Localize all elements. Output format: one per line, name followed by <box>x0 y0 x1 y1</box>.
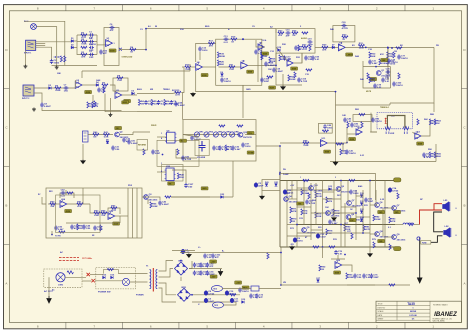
capacitor C8 <box>40 103 43 108</box>
resistor R55 <box>434 152 436 158</box>
potentiometer VR4 <box>221 132 226 137</box>
wire bias drop <box>280 252 282 285</box>
vactrol dashed box <box>377 113 412 129</box>
capacitor C18 <box>272 68 275 73</box>
svg-text:NONE: NONE <box>410 311 417 313</box>
capacitor C110 <box>297 78 300 83</box>
IC label tag 4558 <box>247 70 254 73</box>
resistor R87 <box>308 193 310 199</box>
capacitor C52 <box>328 220 331 225</box>
wire PA bottom rail <box>280 246 400 248</box>
diode D13 <box>329 188 332 191</box>
svg-text:4.7/25: 4.7/25 <box>301 80 308 83</box>
IC label tag 2SC <box>115 126 122 129</box>
resistor R53 <box>434 119 436 125</box>
diode D20 <box>265 184 268 187</box>
IC label tag REG <box>242 286 249 289</box>
wire stage B drop <box>81 71 83 78</box>
capacitor C76 <box>334 250 337 255</box>
resistor R75 <box>315 192 317 198</box>
U12 loop box <box>353 115 372 122</box>
potentiometer VR1 <box>194 132 199 137</box>
wire up <box>346 127 348 143</box>
wire PA w1 <box>291 181 293 200</box>
wire PA v10 <box>303 181 305 225</box>
resistor R85 <box>389 244 391 250</box>
volume cap sub-box <box>195 139 209 155</box>
capacitor C62 <box>206 263 209 268</box>
svg-text:6.8K: 6.8K <box>104 137 109 139</box>
wire J3 to R5 <box>34 87 75 89</box>
wire PA rail 2 <box>287 189 341 191</box>
svg-text:2SC1815: 2SC1815 <box>243 137 253 139</box>
capacitor C70 <box>238 288 241 293</box>
wire k drop <box>335 92 337 162</box>
svg-text:SHEET: SHEET <box>378 319 385 321</box>
op-amp U14 <box>60 201 67 208</box>
wire PA base link 1 <box>323 198 342 200</box>
wire link8 <box>311 229 323 231</box>
svg-text:4.7K: 4.7K <box>424 156 429 159</box>
capacitor C77 <box>397 55 400 60</box>
diode D12 <box>360 211 363 214</box>
capacitor C36 <box>231 146 234 151</box>
node G left <box>387 47 389 49</box>
resistor R92 <box>319 265 321 271</box>
svg-text:100/10: 100/10 <box>224 81 231 83</box>
svg-text:47P: 47P <box>110 29 114 32</box>
svg-text:0.047: 0.047 <box>332 222 338 225</box>
node rect2 <box>191 294 193 296</box>
resistor R36 <box>396 47 402 49</box>
IC label tag 4558 <box>65 209 72 212</box>
wire PA link 3 <box>356 216 370 218</box>
IC label tag 2SC <box>370 77 377 80</box>
capacitor C6 <box>110 26 115 29</box>
svg-text:B: B <box>5 204 7 208</box>
node I <box>237 134 239 136</box>
node vref <box>344 254 346 256</box>
wire into switch box <box>90 274 103 276</box>
wire PA rail 4 <box>297 232 370 234</box>
capacitor C74 <box>362 274 365 279</box>
red wire to speaker 1 <box>420 204 443 225</box>
svg-text:HOSHINO GAKKI: HOSHINO GAKKI <box>433 304 448 307</box>
resistor R25 <box>279 55 281 61</box>
wire F right <box>390 67 392 88</box>
capacitor C96 <box>54 226 57 231</box>
svg-text:2SC1815: 2SC1815 <box>314 190 324 192</box>
wire bridge top <box>189 261 192 269</box>
resistor R88 <box>329 246 335 248</box>
wire node L stub <box>51 231 53 235</box>
node box top <box>242 38 244 40</box>
wire tank return <box>176 149 197 158</box>
capacitor C43 <box>70 225 73 230</box>
resistor R66 <box>150 202 152 208</box>
speckle pass 5 <box>140 26 435 241</box>
wire PA drop2 <box>322 247 324 258</box>
capacitor C40 <box>343 118 346 123</box>
capacitor C73 <box>353 274 356 279</box>
resistor R79 <box>333 209 335 215</box>
wire stub F <box>362 61 364 67</box>
connector J4 <box>83 131 89 142</box>
svg-text:10/16: 10/16 <box>327 128 333 130</box>
svg-text:100K: 100K <box>81 44 87 46</box>
wire to U4 <box>181 67 184 93</box>
wire jack J1 to ground bus <box>24 21 65 65</box>
ground <box>55 66 59 70</box>
wire tremolo bottom bus <box>330 161 436 163</box>
IC label tag +35V <box>210 260 217 263</box>
input jack J1 (phone jack) <box>31 24 37 30</box>
wire EQ bottom bus <box>137 111 172 113</box>
resistor R8 <box>117 77 123 79</box>
resistor R122 <box>359 114 365 116</box>
test point pill TP1 <box>394 178 402 182</box>
large electrolytic C33 <box>199 141 206 152</box>
chassis ground arrow <box>47 296 51 303</box>
resistor R4 <box>130 49 136 51</box>
wire AC ground drop <box>48 277 50 296</box>
svg-text:33K: 33K <box>317 216 321 218</box>
output connector node <box>417 237 420 240</box>
resistor R110 <box>81 46 87 48</box>
svg-text:47P: 47P <box>259 296 263 299</box>
capacitor C31 <box>111 146 114 151</box>
resistor R81 <box>363 225 365 231</box>
resistor R89 <box>303 179 309 181</box>
svg-text:1K: 1K <box>231 41 234 43</box>
diode D3 <box>49 87 52 90</box>
resistor R20 <box>217 60 219 66</box>
diode D8 <box>106 141 109 144</box>
svg-text:4.7/25: 4.7/25 <box>309 202 316 205</box>
svg-text:1: 1 <box>300 177 301 179</box>
wire stub box2 <box>242 85 244 91</box>
svg-text:2: 2 <box>335 177 336 179</box>
wire branch 1 <box>77 34 97 36</box>
svg-text:VOLUME: VOLUME <box>197 157 206 159</box>
svg-text:1M: 1M <box>141 103 144 105</box>
svg-text:220P: 220P <box>155 153 161 155</box>
wire to U5 <box>219 66 241 68</box>
svg-text:100K: 100K <box>152 206 158 208</box>
node PA top <box>340 180 342 182</box>
wire PA v11 <box>347 181 349 204</box>
resistor R61 <box>77 203 83 205</box>
svg-text:0.047: 0.047 <box>235 148 241 151</box>
wire J2 contact b <box>36 44 46 46</box>
IC label tag 4558 <box>201 73 208 76</box>
electrolytic capacitor C8 <box>204 291 208 296</box>
L block inner box <box>56 195 100 233</box>
node junction <box>355 212 357 214</box>
op-amp U11 <box>321 140 328 147</box>
svg-text:10K: 10K <box>180 177 184 179</box>
wire U2 out <box>82 84 96 86</box>
IC label tag 2SD <box>378 210 385 213</box>
svg-text:NJM: NJM <box>123 102 128 104</box>
capacitor C100 <box>392 82 395 87</box>
svg-text:0.0047: 0.0047 <box>162 203 169 206</box>
resistor R31 <box>358 44 364 46</box>
svg-text:4.7K: 4.7K <box>111 209 116 212</box>
resistor R84 <box>373 242 375 248</box>
resistor R6 <box>164 99 166 105</box>
wire J1 tip <box>36 27 56 66</box>
capacitor C91 <box>89 46 94 49</box>
test point pill TP2 <box>394 247 402 251</box>
IC label tag 4558 <box>349 137 356 140</box>
svg-text:10/16: 10/16 <box>54 62 60 64</box>
transformer T1 core (red) <box>152 268 154 292</box>
ground <box>108 113 112 117</box>
LDR photoresistor 1 <box>385 127 391 135</box>
IC label tag BA <box>168 182 175 185</box>
capacitor C51 <box>305 200 308 205</box>
wire I out <box>245 134 256 136</box>
capacitor C19 <box>308 40 313 43</box>
op-amp U5 <box>241 62 248 69</box>
capacitor C63 <box>193 271 196 276</box>
resistor R80 <box>344 225 346 231</box>
svg-text:INPUT 2: INPUT 2 <box>22 98 29 100</box>
feedback R65 <box>108 208 120 214</box>
capacitor C99 <box>311 56 314 61</box>
wire sec 4 <box>159 288 177 302</box>
capacitor C94 <box>174 102 177 107</box>
wire into U12 <box>347 133 356 135</box>
wire F loop <box>363 67 391 88</box>
capacitor C42 <box>61 191 66 194</box>
switch dashed box <box>96 268 136 289</box>
resistor R106 <box>417 119 419 125</box>
resistor R48 <box>303 142 309 144</box>
capacitor C45 <box>158 201 161 206</box>
svg-text:0.0047: 0.0047 <box>268 64 275 67</box>
svg-text:2-25-86: 2-25-86 <box>409 315 417 317</box>
wire connector drop <box>82 144 84 160</box>
wire J2 sleeve down <box>24 50 26 64</box>
resistor R64 <box>101 212 107 214</box>
wire trem stub <box>342 144 344 152</box>
node reverb <box>162 154 164 156</box>
wire rect gnd <box>180 277 182 281</box>
title block frame <box>376 301 462 322</box>
wire U14 out <box>67 203 90 205</box>
wire top aux <box>172 250 195 252</box>
resistor R67 <box>165 196 171 198</box>
node rect in <box>180 260 182 262</box>
thermal loop <box>103 270 118 274</box>
transistor Q9 <box>392 235 397 240</box>
svg-text:BR2: BR2 <box>182 287 187 289</box>
svg-text:47K: 47K <box>322 49 326 52</box>
resistor R3 <box>81 53 87 55</box>
node junction <box>340 224 342 226</box>
svg-text:4.7K: 4.7K <box>175 94 180 97</box>
svg-text:B: B <box>463 204 465 208</box>
svg-text:0.0047: 0.0047 <box>366 276 373 279</box>
svg-text:10/16: 10/16 <box>297 241 303 243</box>
resistor R126 <box>306 69 312 71</box>
resistor R5 <box>55 87 61 89</box>
wire EQ out drop to pots <box>182 93 184 120</box>
capacitor C107 <box>184 183 187 188</box>
node k drop <box>335 91 337 93</box>
wire q stub <box>147 199 149 204</box>
wire right drop <box>433 103 435 112</box>
diode D22 <box>221 196 224 199</box>
svg-text:7915: 7915 <box>214 305 218 307</box>
svg-text:6.8K: 6.8K <box>94 215 99 217</box>
node G top <box>391 47 393 49</box>
wire PA v2 <box>286 181 288 248</box>
svg-text:1M: 1M <box>394 51 397 53</box>
IC label tag -35V <box>210 275 217 278</box>
op-amp U1 <box>106 40 113 47</box>
wire PA w9 <box>356 195 363 197</box>
resistor R9 <box>87 102 89 108</box>
resistor R5 <box>151 99 153 105</box>
potentiometer VR5 <box>230 132 235 137</box>
wire eq bottom long <box>105 111 172 113</box>
wire sec 3 <box>159 283 177 295</box>
wire ground bus block A <box>52 65 98 67</box>
svg-text:117V 60Hz: 117V 60Hz <box>82 258 92 260</box>
svg-text:0.0047: 0.0047 <box>44 105 51 108</box>
AC plug P1 <box>56 273 65 282</box>
wire to transformer <box>118 273 147 275</box>
svg-text:SCALE: SCALE <box>378 310 385 313</box>
svg-text:47K: 47K <box>391 220 395 223</box>
svg-text:4.7/25: 4.7/25 <box>342 27 349 30</box>
wire into U9 <box>157 136 167 138</box>
feedback box U1 <box>104 28 119 66</box>
resistor R117 <box>349 179 355 181</box>
wire drop 2 <box>109 98 111 113</box>
resistor R100 <box>219 125 225 127</box>
wire PA drop3 <box>369 247 371 252</box>
svg-text:10/16: 10/16 <box>202 50 208 52</box>
transformer T1 secondary <box>156 270 157 289</box>
resistor R116 <box>313 246 319 248</box>
ground <box>281 86 286 90</box>
svg-text:47K: 47K <box>380 53 384 56</box>
wire EQ out <box>172 93 178 94</box>
capacitor C87 <box>422 153 425 158</box>
svg-text:220K: 220K <box>55 90 61 92</box>
wire L in from tank <box>42 197 46 204</box>
resistor R73 <box>301 189 303 195</box>
lamp filament LA1 (red) <box>385 118 387 124</box>
svg-text:47P: 47P <box>215 256 219 259</box>
wire U8 out long bus right <box>345 46 434 48</box>
svg-text:47P: 47P <box>103 52 107 55</box>
wire link7 <box>297 206 311 208</box>
diode D7 <box>332 46 335 49</box>
svg-text:33K: 33K <box>50 206 54 208</box>
svg-text:47K: 47K <box>292 210 296 213</box>
svg-text:10K: 10K <box>101 215 105 217</box>
capacitor C109 <box>260 78 263 83</box>
wire sec 1 <box>159 261 174 272</box>
svg-text:100K: 100K <box>375 219 381 221</box>
svg-text:MUTE: MUTE <box>366 91 372 93</box>
capacitor C1 <box>89 33 94 36</box>
wire U3 out <box>122 94 137 96</box>
diode D5 <box>132 92 135 95</box>
svg-text:220P: 220P <box>374 277 380 279</box>
wire J2 contact a <box>36 43 46 45</box>
wire to Q6 <box>370 204 377 206</box>
resistor R82 <box>373 215 375 221</box>
svg-text:0.047: 0.047 <box>320 236 326 239</box>
wire PA v9 <box>384 181 386 248</box>
diode D11 <box>360 203 363 206</box>
resistor R121 <box>267 253 269 259</box>
svg-text:1K: 1K <box>321 269 324 271</box>
svg-text:10/16: 10/16 <box>353 193 359 195</box>
resistor R7 <box>102 84 108 86</box>
wire L stub <box>119 216 121 223</box>
wire aux bus long <box>180 252 281 254</box>
resistor R56 <box>340 149 342 155</box>
wire low rail 1 <box>192 294 240 296</box>
resistor R46 <box>225 145 227 151</box>
electrolytic capacitor C12 <box>283 190 287 195</box>
node E in <box>275 65 277 67</box>
wire bias bus <box>281 284 375 286</box>
svg-text:2SA: 2SA <box>298 202 302 205</box>
AC labels (red) <box>59 258 79 261</box>
resistor R2 <box>81 40 87 42</box>
wire PA to bias drop <box>280 247 282 252</box>
transistor Q7 <box>392 206 397 211</box>
electrolytic capacitor C6 <box>293 238 297 243</box>
capacitor C23 <box>381 78 384 83</box>
title block grid <box>376 301 430 323</box>
transistor Q8 <box>346 215 351 220</box>
feedback U19 <box>331 255 345 259</box>
feedback box U3 <box>113 78 128 91</box>
capacitor C82 <box>151 150 154 155</box>
capacitor C15 <box>254 50 257 55</box>
regulator U16 <box>212 286 223 292</box>
svg-text:100K: 100K <box>303 145 309 147</box>
capacitor C79 <box>294 46 297 51</box>
power switch SW1 <box>122 278 129 285</box>
resistor R111 <box>103 87 105 93</box>
wire reg chain 2 <box>224 302 237 305</box>
resistor R42 <box>177 173 179 179</box>
resistor R120 <box>398 73 400 79</box>
capacitor C61 <box>199 263 202 268</box>
capacitor C24 <box>387 59 390 64</box>
svg-text:2.2K: 2.2K <box>317 196 322 198</box>
wire branch down <box>387 47 389 66</box>
transistor Q5 <box>302 228 307 233</box>
input jack J2 <box>26 40 36 50</box>
svg-text:VB: VB <box>283 282 286 284</box>
junction overload <box>119 48 122 51</box>
svg-text:0.0047: 0.0047 <box>178 104 185 107</box>
IC label tag 4558 <box>334 271 341 274</box>
reg block U18 <box>251 286 259 291</box>
wire U4 out <box>203 66 216 68</box>
